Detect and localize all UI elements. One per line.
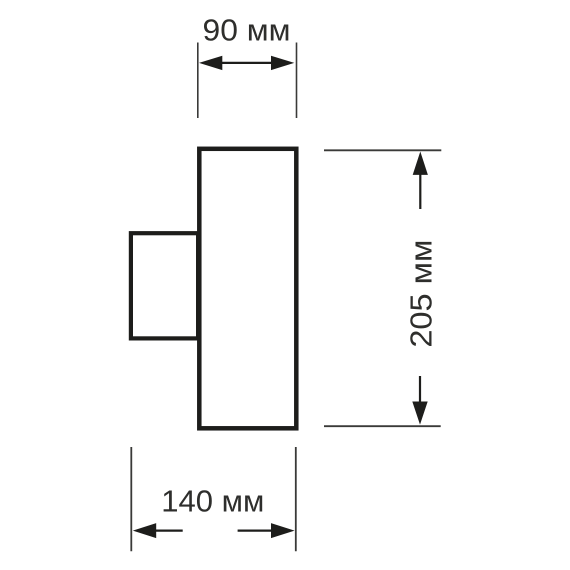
svg-text:90 мм: 90 мм bbox=[203, 13, 291, 48]
svg-text:205 мм: 205 мм bbox=[404, 240, 439, 348]
svg-text:140 мм: 140 мм bbox=[161, 484, 264, 519]
